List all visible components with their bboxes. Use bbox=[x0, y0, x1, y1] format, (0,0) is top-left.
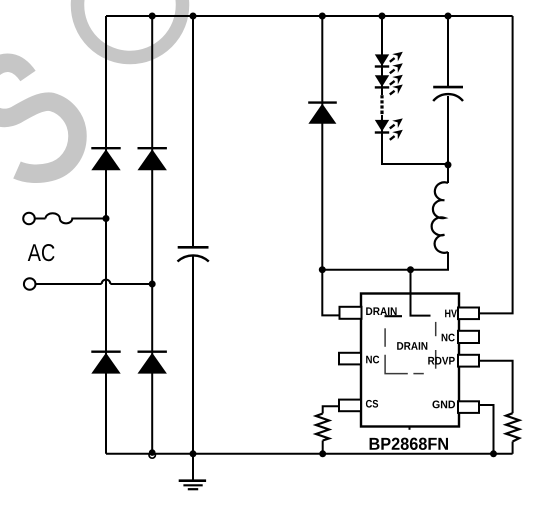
pin label GND bbox=[432, 401, 455, 409]
inductor L1 bbox=[432, 182, 448, 252]
pin RDVP bbox=[458, 355, 479, 367]
arrows LED2 bbox=[390, 75, 403, 85]
node drain wire center bbox=[407, 266, 414, 273]
watermark letter S bbox=[0, 63, 78, 174]
diode D5 freewheeling bbox=[308, 103, 337, 124]
wire inductor bottom to drain node bbox=[322, 252, 448, 270]
capacitor C2 output bbox=[433, 87, 463, 101]
wire GND pin to rail bbox=[479, 405, 494, 454]
pin label HV bbox=[445, 310, 457, 318]
arrows LED3 bbox=[390, 118, 403, 128]
pin DRAIN bbox=[340, 307, 362, 319]
dash under DRAIN label bbox=[385, 315, 403, 317]
pin label RDVP bbox=[428, 357, 455, 365]
label AC bbox=[28, 244, 55, 261]
wire output cap lower to inductor bbox=[447, 96, 449, 183]
node ground junction bbox=[190, 450, 197, 457]
wire resistor R1 to rail bbox=[322, 441, 324, 454]
pin NC right bbox=[458, 331, 479, 343]
wire LED branch lower to cap node bbox=[382, 115, 448, 164]
node LED bottom / cap / inductor bbox=[445, 161, 452, 168]
wire drain node into IC bbox=[411, 270, 431, 316]
pin CS bbox=[339, 400, 361, 412]
LED string D6 bbox=[375, 54, 389, 132]
node resistor R1 junction bbox=[319, 450, 326, 457]
node bridge right bottom (open) bbox=[149, 452, 155, 458]
pin HV bbox=[458, 308, 479, 320]
wire HV branch bbox=[479, 16, 513, 313]
wire AC neutral to bridge bbox=[110, 283, 152, 285]
wire crossover hop bbox=[102, 280, 111, 284]
label BP2868FN bbox=[370, 438, 448, 450]
capacitor C1 bulk bbox=[178, 247, 209, 261]
thermal pad tick bbox=[409, 427, 411, 430]
node AC live junction bbox=[103, 215, 110, 222]
diode D3 bridge lower-left bbox=[91, 352, 120, 374]
wire top rail bbox=[106, 15, 513, 17]
node AC neutral junction bbox=[149, 281, 156, 288]
wire CS pin to resistor R1 bbox=[323, 406, 340, 413]
wire bridge right column bbox=[151, 16, 153, 454]
node top rail / freewheel diode bbox=[319, 13, 326, 20]
AC terminal bottom bbox=[24, 278, 36, 290]
diode D2 bridge upper-right bbox=[138, 148, 167, 170]
node GND wire junction bbox=[490, 450, 497, 457]
dotted continuation bbox=[380, 95, 383, 114]
wire AC live to bridge bbox=[35, 218, 46, 220]
watermark letter O bbox=[78, 0, 183, 58]
pin NC left bbox=[339, 353, 361, 365]
wire output cap upper bbox=[447, 16, 449, 86]
node top rail / LED string bbox=[379, 13, 386, 20]
pin GND bbox=[458, 401, 479, 413]
wire freewheel diode branch to DRAIN pin bbox=[322, 16, 340, 315]
pin label DRAIN bbox=[366, 307, 396, 315]
wire LED branch upper bbox=[381, 16, 383, 95]
ground bbox=[179, 454, 206, 489]
wire RDVP to resistor bbox=[479, 361, 513, 413]
node top rail / bridge right bbox=[149, 13, 156, 20]
wire resistor R2 to rail bbox=[512, 442, 514, 454]
pin label NC left bbox=[366, 356, 379, 364]
diode D4 bridge lower-right bbox=[138, 352, 167, 374]
arrows LED1 bbox=[390, 52, 403, 62]
wire bottom rail bbox=[106, 453, 513, 455]
AC terminal top bbox=[23, 213, 35, 225]
resistor R2 bbox=[506, 413, 519, 441]
label DRAIN internal bbox=[397, 342, 427, 350]
wire bulk cap column upper bbox=[192, 16, 194, 246]
wire bulk cap column lower bbox=[192, 256, 194, 454]
internal dashed drain region bbox=[385, 322, 436, 374]
diode D1 bridge upper-left bbox=[91, 148, 120, 170]
IC U1 body bbox=[361, 294, 459, 427]
wire bridge left column bbox=[105, 16, 107, 454]
LED3 bbox=[375, 120, 389, 132]
fuse F1 bbox=[46, 213, 107, 223]
wire AC neutral bbox=[36, 283, 102, 285]
pin label CS bbox=[366, 400, 378, 408]
LED2 bbox=[375, 75, 389, 87]
pin label NC right bbox=[442, 334, 455, 342]
node top rail / bulk cap bbox=[190, 13, 197, 20]
node top rail / output cap bbox=[445, 13, 452, 20]
node drain wire left bbox=[319, 266, 326, 273]
LED1 bbox=[375, 54, 389, 66]
resistor R1 bbox=[316, 414, 329, 441]
